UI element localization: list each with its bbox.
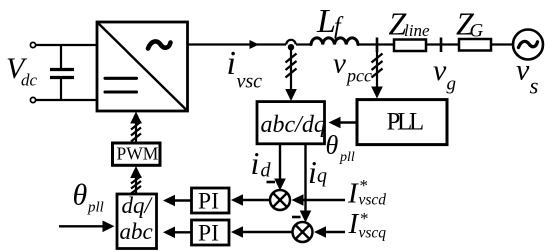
wire dc bottom xyxy=(36,99,97,101)
impedance ZG xyxy=(459,39,491,51)
label theta_pll lower xyxy=(73,179,104,216)
wire dc top xyxy=(36,44,97,46)
wire bus after hop xyxy=(296,43,311,45)
converter U1 xyxy=(97,22,188,111)
svg-text:g: g xyxy=(447,74,457,95)
arrowhead into PWM xyxy=(130,166,142,178)
wire theta_pll input xyxy=(59,225,103,227)
arrowhead PI1 to dq/abc xyxy=(163,195,175,207)
label i_d xyxy=(251,145,272,182)
svg-text:i: i xyxy=(251,145,260,181)
arrowhead PI2 to dq/abc xyxy=(163,227,175,239)
arrowhead i_d into S1 xyxy=(274,179,286,191)
svg-text:PLL: PLL xyxy=(387,109,423,136)
node tick v_g xyxy=(440,38,443,53)
label v_g xyxy=(433,54,456,95)
arrowhead Ivscd into S1 xyxy=(292,194,304,206)
current arrow i_vsc xyxy=(250,40,260,49)
svg-text:line: line xyxy=(404,21,430,40)
measurement tap v_pcc wire xyxy=(376,46,378,88)
measurement tap i_vsc wire xyxy=(290,48,292,90)
wire ac bus xyxy=(188,43,287,45)
label theta_pll upper xyxy=(326,131,355,166)
svg-text:pcc: pcc xyxy=(345,66,372,86)
DC source terminal top xyxy=(30,42,35,47)
node tick v_pcc xyxy=(376,38,379,53)
svg-text:G: G xyxy=(470,21,484,42)
arrowhead theta_pll into dq/abc xyxy=(103,221,115,233)
label i_vsc xyxy=(227,45,263,93)
block PWM xyxy=(113,143,161,165)
svg-text:vscd: vscd xyxy=(359,192,387,209)
svg-text:v: v xyxy=(333,48,346,80)
capacitor C1 xyxy=(50,45,74,100)
arrowhead into PI1 xyxy=(231,194,243,206)
svg-text:dq/: dq/ xyxy=(122,193,154,218)
svg-text:PI: PI xyxy=(198,221,219,247)
svg-text:i: i xyxy=(308,154,317,190)
block PI1 xyxy=(192,188,230,215)
summing junction S1 xyxy=(270,190,290,210)
wire S1 to PI1 xyxy=(243,199,270,201)
label i_q xyxy=(308,154,327,190)
svg-text:abc/dq: abc/dq xyxy=(261,112,326,138)
label Ivscq xyxy=(348,208,387,242)
svg-text:pll: pll xyxy=(87,200,104,216)
wire Ivscq ref xyxy=(325,231,345,233)
block PI2 xyxy=(192,220,230,247)
svg-text:vsc: vsc xyxy=(237,71,263,93)
label v_pcc xyxy=(333,48,372,86)
label Zline xyxy=(389,6,430,42)
svg-text:q: q xyxy=(317,165,327,187)
svg-text:L: L xyxy=(316,3,336,40)
svg-text:v: v xyxy=(433,54,447,87)
bundle slashes PWM-converter xyxy=(131,122,141,142)
svg-text:I: I xyxy=(347,178,359,210)
impedance Zline xyxy=(394,40,426,52)
svg-text:abc: abc xyxy=(120,219,153,244)
svg-text:s: s xyxy=(530,74,539,99)
wire PI2 to dq/abc xyxy=(175,231,192,233)
wire Lf to Zline xyxy=(358,43,394,45)
arrow into PLL xyxy=(371,87,383,99)
arrowhead PLL to abc/dq xyxy=(329,117,341,129)
wire PLL to abc/dq xyxy=(340,121,357,123)
wire ZG to source xyxy=(491,43,513,45)
svg-text:d: d xyxy=(261,160,272,182)
svg-text:i: i xyxy=(227,45,236,82)
wire dq/abc to PWM xyxy=(135,174,137,194)
measurement slashes v_pcc xyxy=(372,54,383,78)
arrowhead Ivscq into S2 xyxy=(314,226,326,238)
node junction dot xyxy=(288,44,294,50)
label Lf xyxy=(316,3,344,40)
svg-text:pll: pll xyxy=(339,150,355,165)
svg-text:v: v xyxy=(516,54,530,87)
svg-text:θ: θ xyxy=(326,131,339,160)
block abc/dq xyxy=(257,102,326,144)
measurement slashes i_vsc xyxy=(286,54,297,78)
minus sign at S1 xyxy=(267,181,276,184)
wire Zline to ZG xyxy=(426,43,459,45)
label Ivscd xyxy=(347,176,386,210)
AC source vs xyxy=(513,30,543,60)
wire i_q xyxy=(304,144,306,212)
arrow into abc/dq xyxy=(285,89,297,101)
svg-text:f: f xyxy=(334,13,344,39)
label ZG xyxy=(456,6,484,42)
bundle slashes dq/abc-PWM xyxy=(131,176,141,194)
arrowhead into converter xyxy=(130,112,142,124)
arrowhead into PI2 xyxy=(231,226,243,238)
summing junction S2 xyxy=(293,222,313,242)
label Vdc xyxy=(6,52,38,90)
inductor Lf xyxy=(311,38,358,45)
DC source terminal bottom xyxy=(30,97,35,102)
svg-text:vscq: vscq xyxy=(359,225,387,242)
wire hop at node xyxy=(286,40,295,45)
wire Ivscd ref xyxy=(303,199,345,201)
wire S2 to PI2 xyxy=(243,231,293,233)
arrowhead i_q into S2 xyxy=(300,211,312,223)
minus sign at S2 xyxy=(292,216,301,219)
svg-text:PWM: PWM xyxy=(117,144,159,164)
wire i_d xyxy=(279,144,281,180)
svg-text:dc: dc xyxy=(21,71,38,90)
svg-text:θ: θ xyxy=(73,179,88,212)
wire PWM to converter xyxy=(135,119,137,143)
block dq/abc xyxy=(117,193,157,249)
block PLL xyxy=(357,100,447,145)
wire PI1 to dq/abc xyxy=(175,199,192,201)
svg-text:PI: PI xyxy=(198,189,219,215)
label vs xyxy=(516,54,539,99)
